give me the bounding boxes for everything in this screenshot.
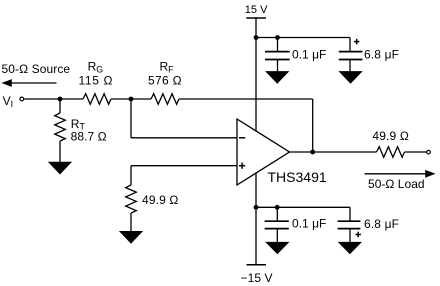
svg-text:RG: RG — [88, 60, 104, 75]
svg-text:88.7 Ω: 88.7 Ω — [71, 130, 107, 144]
svg-text:VI: VI — [3, 94, 14, 109]
svg-text:15 V: 15 V — [245, 4, 268, 16]
svg-text:49.9 Ω: 49.9 Ω — [372, 129, 408, 143]
svg-text:115 Ω: 115 Ω — [79, 74, 113, 88]
svg-text:6.8 μF: 6.8 μF — [364, 217, 399, 231]
svg-text:0.1 μF: 0.1 μF — [292, 48, 326, 62]
svg-text:576 Ω: 576 Ω — [148, 74, 182, 88]
svg-text:THS3491: THS3491 — [268, 169, 327, 185]
svg-text:0.1 μF: 0.1 μF — [292, 217, 326, 231]
svg-text:50-Ω Load: 50-Ω Load — [368, 177, 425, 191]
svg-text:6.8 μF: 6.8 μF — [364, 47, 399, 61]
svg-text:−15 V: −15 V — [241, 271, 273, 285]
svg-text:50-Ω Source: 50-Ω Source — [2, 62, 71, 76]
svg-text:49.9 Ω: 49.9 Ω — [142, 193, 178, 207]
svg-text:RF: RF — [160, 60, 175, 75]
